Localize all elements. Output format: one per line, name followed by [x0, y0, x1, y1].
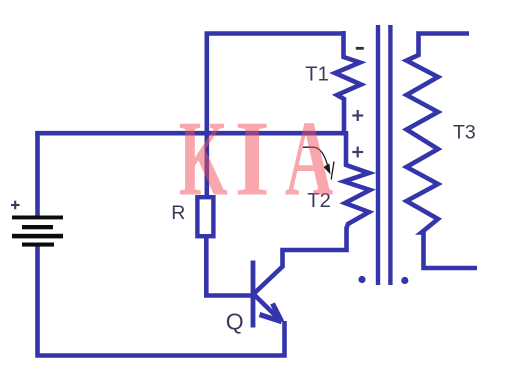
phase dot primary [358, 276, 365, 283]
svg-text:Q: Q [226, 309, 244, 335]
svg-text:T3: T3 [453, 122, 476, 144]
svg-text:I: I [235, 99, 270, 219]
battery B1 short bar 2 [22, 243, 54, 247]
watermark KIA [179, 99, 334, 219]
winding T1 [335, 31, 361, 133]
annotation arrow (feedback direction) [303, 147, 334, 179]
plus polarity mark upper [352, 110, 363, 121]
svg-text:A: A [285, 100, 333, 219]
transistor Q base bar [251, 261, 256, 328]
battery B1 plus bar long [12, 216, 63, 220]
svg-text:K: K [179, 99, 228, 219]
battery plus label [11, 201, 20, 210]
wire: battery left vertical top [35, 131, 40, 218]
wire: resistor bottom to base [206, 236, 251, 296]
transistor Q emitter arrowhead [273, 304, 282, 322]
resistor R [197, 197, 213, 236]
svg-text:T1: T1 [305, 64, 329, 86]
minus polarity mark [356, 47, 364, 50]
winding T2 [344, 131, 370, 228]
transistor Q emitter lead [255, 296, 281, 322]
winding T3 [407, 34, 478, 269]
battery B1 long bar [12, 234, 63, 239]
battery B1 short bar [22, 225, 53, 229]
transformer core line right [388, 25, 392, 285]
phase dot secondary [401, 277, 408, 284]
wire: battery bottom loop to emitter [38, 245, 285, 356]
transistor Q collector lead and wire to T2 bottom [254, 227, 347, 294]
wire: mid horizontal from battery to T1/T2 junction [35, 131, 344, 136]
wire: top wire from R-branch to T1 [207, 34, 344, 196]
plus polarity mark lower [352, 147, 363, 158]
transformer core line left [376, 25, 380, 285]
